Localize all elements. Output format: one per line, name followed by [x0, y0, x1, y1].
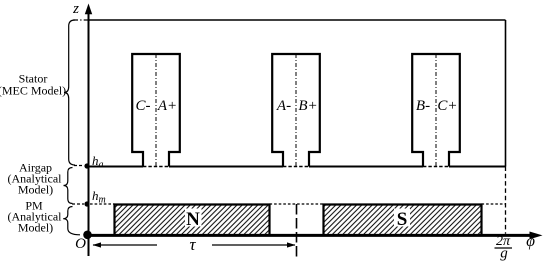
z axis	[88, 12, 90, 256]
stator bottom dashed segments across slot openings	[143, 166, 449, 168]
tau dimension left arrowhead	[93, 242, 102, 247]
svg-text:B-: B-	[416, 98, 430, 114]
h_m dashed line right of magnet S	[482, 203, 506, 205]
PM brace	[63, 207, 80, 235]
2pi/g dashed vertical	[505, 167, 507, 234]
svg-text:S: S	[397, 209, 408, 230]
svg-text:C-: C-	[136, 98, 151, 114]
magnet S label background	[394, 209, 410, 227]
pole gap center long-dash line	[296, 204, 298, 258]
magnet S hatched body	[324, 205, 482, 235]
svg-text:φ: φ	[526, 233, 535, 250]
svg-text:(MEC Model): (MEC Model)	[0, 84, 66, 98]
stator top line	[89, 19, 506, 21]
svg-text:Model): Model)	[18, 183, 53, 197]
phi axis	[87, 234, 531, 237]
slot 2 center line	[295, 54, 297, 167]
2pi over g fraction bar	[495, 247, 513, 249]
slot 3 outline	[412, 54, 460, 167]
stator brace	[64, 20, 75, 165]
h_m dashes left of axis	[72, 203, 84, 205]
h_m node dot	[84, 201, 89, 206]
svg-text:O: O	[75, 236, 86, 252]
slot 1 center line	[155, 54, 157, 167]
stator right edge	[505, 20, 507, 167]
z axis arrowhead	[85, 4, 92, 15]
magnet N label background	[185, 209, 202, 227]
magnet N hatched body	[115, 205, 270, 235]
svg-text:C+: C+	[437, 98, 457, 114]
svg-text:B+: B+	[298, 98, 317, 114]
svg-text:z: z	[72, 1, 79, 17]
svg-text:τ: τ	[189, 235, 196, 254]
svg-text:g: g	[500, 246, 508, 262]
h_m dashed line across magnet gap	[270, 203, 324, 205]
magnet N outline	[115, 205, 270, 236]
tau dimension line left segment	[93, 244, 157, 246]
slot 3 center line	[435, 54, 437, 167]
h_a node dot	[84, 163, 89, 168]
h_m dashed line axis to magnet N	[90, 203, 115, 205]
svg-text:A+: A+	[157, 98, 177, 114]
phi axis arrowhead	[530, 232, 543, 240]
magnet S outline	[324, 205, 482, 236]
tau dimension line right segment	[212, 244, 295, 246]
origin dot	[83, 231, 92, 240]
svg-text:N: N	[186, 209, 200, 230]
airgap brace	[64, 168, 73, 204]
slot 1 outline	[132, 54, 180, 167]
tau dimension right arrowhead	[287, 242, 296, 247]
svg-text:A-: A-	[276, 98, 291, 114]
stator bottom line solid segments (h_a level)	[88, 166, 506, 168]
svg-text:Model): Model)	[18, 221, 53, 235]
h_a dashes left of axis	[74, 165, 84, 167]
stator top dash-dot left of axis	[73, 19, 89, 21]
slot 2 outline	[272, 54, 320, 167]
